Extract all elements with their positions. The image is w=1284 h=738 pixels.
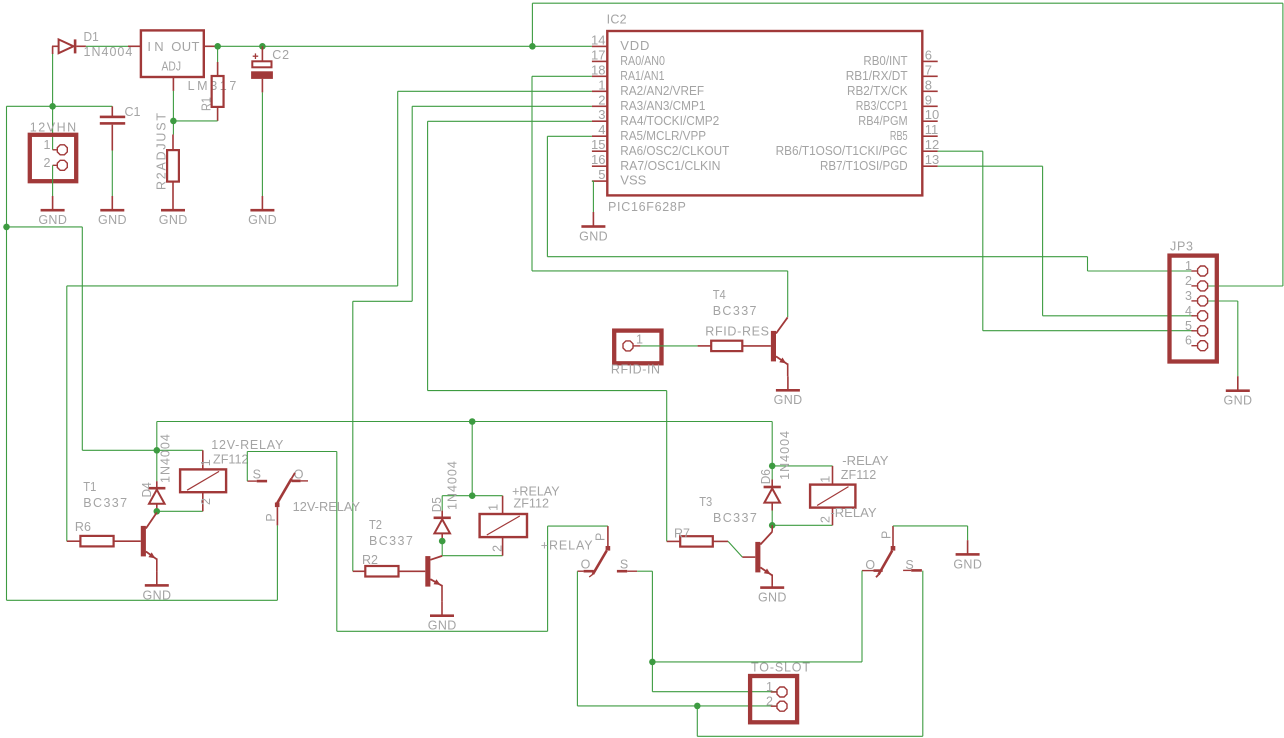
- svg-text:TO-SLOT: TO-SLOT: [751, 661, 810, 675]
- svg-text:JP3: JP3: [1170, 239, 1193, 253]
- svg-text:GND: GND: [428, 619, 457, 633]
- connector RFID-IN: [614, 331, 661, 364]
- wire segment B: [247, 451, 336, 453]
- svg-text:1N4004: 1N4004: [446, 461, 460, 510]
- wire: [6, 106, 8, 227]
- resistor R7: [667, 536, 728, 546]
- resistor R2: [353, 566, 426, 577]
- IC2 pin 6 RB0/INT: [863, 47, 937, 68]
- svg-text:11: 11: [925, 122, 939, 137]
- svg-text:RA0/AN0: RA0/AN0: [620, 53, 665, 68]
- svg-text:1N4004: 1N4004: [778, 431, 792, 480]
- wire 12VHN pin2 to ground: [52, 165, 54, 196]
- svg-text:RA5/MCLR/VPP: RA5/MCLR/VPP: [620, 128, 706, 143]
- junction: [694, 703, 701, 710]
- wire T3 emitter to ground: [771, 574, 773, 585]
- svg-text:RA7/OSC1/CLKIN: RA7/OSC1/CLKIN: [620, 158, 720, 173]
- svg-text:D6: D6: [759, 469, 773, 484]
- svg-text:1N4004: 1N4004: [158, 434, 172, 483]
- T2 emitter arrowhead: [434, 579, 441, 585]
- junction: [214, 43, 221, 50]
- wire C2 to ground: [261, 92, 263, 196]
- svg-text:R2: R2: [362, 553, 378, 567]
- wire to -RELAY coil pin 1: [772, 465, 832, 467]
- svg-text:RA1/AN1: RA1/AN1: [620, 68, 664, 83]
- svg-text:GND: GND: [143, 588, 172, 602]
- wire riser S down to TO-SLOT pin1: [651, 571, 653, 692]
- svg-text:BC337: BC337: [369, 534, 413, 548]
- wire 12V-RELAY S riser: [246, 452, 248, 482]
- wire VDD riser to top rail: [531, 3, 533, 46]
- wire TO-SLOT pin 2: [577, 705, 776, 707]
- svg-text:1: 1: [598, 77, 605, 92]
- wire 12V-RELAY P to bottom rail: [276, 525, 278, 600]
- svg-text:1: 1: [487, 504, 501, 511]
- junction: [529, 43, 536, 50]
- wire C1 to ground: [111, 151, 113, 197]
- wire T2 emitter to ground: [441, 585, 443, 602]
- net 12V raw: wire 12VHN pin1 to C1 top: [7, 105, 113, 107]
- junction: [3, 224, 10, 231]
- svg-text:12V-RELAY: 12V-RELAY: [293, 500, 361, 514]
- wire ADJ vertical: [172, 91, 174, 135]
- net ADJ: wire R1 to ADJ: [173, 120, 217, 122]
- wire D1 to LM317 IN: [86, 45, 128, 47]
- svg-text:P: P: [264, 513, 278, 521]
- IC2 pin 17 RA0/AN0: [591, 47, 665, 68]
- svg-text:2: 2: [1185, 274, 1192, 288]
- net RA4 to R7: [428, 121, 667, 541]
- ground for 12VHN: [38, 196, 67, 227]
- svg-text:5: 5: [598, 167, 605, 182]
- svg-text:12VHN: 12VHN: [30, 121, 76, 135]
- wire far-left vertical: [6, 227, 8, 600]
- svg-text:GND: GND: [758, 591, 787, 605]
- svg-text:7: 7: [925, 62, 932, 77]
- resistor R6: [67, 536, 141, 547]
- wire -RELAY P to ground: [893, 526, 968, 540]
- wire to +RELAY P pivot: [548, 525, 608, 527]
- svg-text:RB4/PGM: RB4/PGM: [858, 113, 907, 128]
- IC U1 PIC16F628P box: [607, 31, 922, 195]
- wire D6 to relay coil pin 2: [772, 524, 832, 526]
- relay coil +RELAY ZF112: [480, 496, 527, 556]
- wire -RELAY O drop: [861, 571, 863, 662]
- svg-text:PIC16F628P: PIC16F628P: [608, 200, 686, 214]
- wire +RELAY O drop: [576, 571, 578, 706]
- junction: [49, 103, 56, 110]
- svg-text:GND: GND: [248, 213, 277, 227]
- wire riser to +RELAY P: [547, 526, 549, 631]
- svg-text:GND: GND: [1224, 394, 1253, 408]
- ground for C1: [98, 196, 127, 227]
- svg-text:P: P: [593, 533, 607, 541]
- svg-text:3: 3: [1185, 289, 1192, 303]
- switch 12V-RELAY: arm and pivot P: [264, 473, 295, 526]
- wire drop from pin2 node: [696, 706, 698, 736]
- IC2 pin 15 RA6/OSC2/CLKOUT: [591, 137, 729, 158]
- svg-text:6: 6: [925, 47, 932, 62]
- svg-text:17: 17: [591, 47, 605, 62]
- connector TO-SLOT: [750, 676, 797, 722]
- svg-text:2: 2: [766, 694, 773, 708]
- ground for VSS: [579, 212, 608, 243]
- transistor T1 BC337: [141, 513, 157, 560]
- svg-text:4: 4: [1185, 304, 1192, 318]
- wire to JP3 pin 2: [1192, 285, 1283, 287]
- wire TO-SLOT pin 1: [652, 691, 776, 693]
- svg-text:IC2: IC2: [607, 13, 627, 27]
- wire rail drop to D5: [471, 422, 473, 496]
- svg-text:R1: R1: [199, 97, 213, 111]
- switch 12V-RELAY: S contact: [247, 467, 267, 482]
- junction: [259, 43, 266, 50]
- wire -RELAY S drop: [922, 571, 924, 737]
- svg-text:14: 14: [591, 32, 605, 47]
- junction: [649, 659, 656, 666]
- junction: [170, 118, 177, 125]
- ground for JP3 pin 3: [1224, 376, 1253, 407]
- svg-text:RB0/INT: RB0/INT: [863, 53, 907, 68]
- svg-text:RA2/AN2/VREF: RA2/AN2/VREF: [620, 83, 704, 98]
- IC2 pin 13 RB7/T1OSI/PGD: [820, 152, 939, 173]
- svg-text:+RELAY: +RELAY: [541, 539, 593, 553]
- wire T3 collector: [771, 525, 773, 532]
- svg-text:C2: C2: [272, 48, 289, 62]
- svg-text:ZF112: ZF112: [841, 468, 877, 482]
- svg-text:3: 3: [598, 107, 605, 122]
- svg-text:ADJ: ADJ: [162, 59, 182, 74]
- T3 emitter arrowhead: [764, 569, 771, 575]
- svg-text:2: 2: [44, 156, 51, 170]
- svg-text:8: 8: [925, 77, 932, 92]
- ground for T4: [774, 376, 803, 407]
- svg-text:RFID-IN: RFID-IN: [611, 363, 660, 377]
- svg-text:D4: D4: [140, 482, 154, 497]
- svg-text:GND: GND: [98, 213, 127, 227]
- svg-text:1N4004: 1N4004: [84, 45, 133, 59]
- junction: [469, 418, 476, 425]
- net RB7 to JP3 pin 4: [938, 166, 1193, 316]
- wire T2 collector to relay pin 2: [442, 555, 502, 557]
- svg-text:IN: IN: [147, 39, 163, 54]
- wire R7 to T3 base (diagonal): [728, 541, 742, 557]
- svg-text:R7: R7: [674, 527, 690, 541]
- svg-text:4: 4: [598, 122, 605, 137]
- svg-text:O: O: [581, 557, 591, 571]
- connector JP3: [1170, 256, 1217, 362]
- svg-text:RB6/T1OSO/T1CKI/PGC: RB6/T1OSO/T1CKI/PGC: [776, 143, 908, 158]
- resistor R1: [212, 46, 224, 121]
- svg-text:RB7/T1OSI/PGD: RB7/T1OSI/PGD: [820, 158, 908, 173]
- ground for -RELAY P: [953, 540, 982, 571]
- net VDD: LM317 OUT to IC2 VDD: [218, 45, 592, 47]
- IC2 pin 12 RB6/T1OSO/T1CKI/PGC: [776, 137, 940, 158]
- wire: [7, 226, 83, 228]
- wire D4 to relay coil pin 2: [157, 510, 203, 512]
- ground for C2: [248, 196, 277, 227]
- wire +RELAY S to riser: [637, 570, 652, 572]
- wire rail to segment A: [156, 422, 158, 451]
- wire 12VHN pin1 riser: [52, 53, 54, 150]
- switch -RELAY: O contact: [862, 558, 883, 572]
- wire T1 emitter to ground: [156, 558, 158, 571]
- svg-text:D5: D5: [430, 497, 444, 512]
- svg-text:12: 12: [925, 137, 939, 152]
- IC2 pin 2 RA3/AN3/CMP1: [592, 92, 705, 113]
- svg-text:10: 10: [925, 107, 939, 122]
- IC2 pin 7 RB1/RX/DT: [846, 62, 938, 83]
- svg-text:5: 5: [1185, 319, 1192, 333]
- connector 12VHN: [30, 135, 76, 181]
- wire D5 node: [442, 495, 502, 497]
- svg-text:RB2/TX/CK: RB2/TX/CK: [847, 83, 908, 98]
- IC2 pin 4 RA5/MCLR/VPP: [592, 122, 706, 143]
- wire D5 to T2 collector: [441, 541, 443, 556]
- svg-text:VSS: VSS: [620, 173, 646, 188]
- T3 base lead: [742, 556, 755, 558]
- svg-text:RB1/RX/DT: RB1/RX/DT: [846, 68, 908, 83]
- svg-text:T2: T2: [369, 518, 382, 532]
- transistor T2 BC337: [425, 556, 442, 587]
- svg-text:2: 2: [491, 545, 505, 552]
- switch +RELAY: S contact: [617, 557, 637, 572]
- junction: [439, 538, 446, 545]
- svg-text:ZF112: ZF112: [514, 497, 550, 511]
- svg-text:T4: T4: [713, 288, 726, 302]
- net RA5 to JP3 pin 1: [547, 136, 1193, 271]
- junction: [469, 492, 476, 499]
- diode D5 1N4004: [434, 496, 451, 541]
- T4 emitter arrowhead: [779, 358, 786, 364]
- svg-text:T1: T1: [83, 480, 96, 494]
- wire RFID-IN to RFID-RES: [640, 345, 697, 347]
- transistor T3 BC337: [755, 532, 772, 576]
- svg-text:ZF112: ZF112: [213, 452, 249, 466]
- svg-text:GND: GND: [159, 213, 188, 227]
- IC2 pin 8 RB2/TX/CK: [847, 77, 938, 98]
- net RA2 to R6: [67, 91, 592, 541]
- svg-text:1: 1: [1185, 259, 1192, 273]
- IC2 pin 1 RA2/AN2/VREF: [592, 77, 704, 98]
- svg-text:9: 9: [925, 92, 932, 107]
- svg-text:2: 2: [199, 498, 213, 505]
- capacitor C1: [100, 106, 125, 150]
- ground for R2ADJUST: [159, 196, 188, 227]
- svg-text:12V-RELAY: 12V-RELAY: [211, 438, 284, 452]
- svg-text:1: 1: [636, 333, 643, 347]
- wire segment B drop: [336, 452, 338, 632]
- svg-text:-RELAY: -RELAY: [830, 506, 877, 520]
- svg-text:-RELAY: -RELAY: [842, 454, 889, 468]
- svg-text:RFID-RES: RFID-RES: [705, 325, 769, 339]
- svg-text:6: 6: [1185, 334, 1192, 348]
- svg-text:GND: GND: [774, 393, 803, 407]
- net RB6 to JP3 pin 5: [938, 151, 1193, 331]
- svg-text:D1: D1: [84, 30, 99, 44]
- IC2 pin 10 RB4/PGM: [858, 107, 939, 128]
- svg-text:RA3/AN3/CMP1: RA3/AN3/CMP1: [620, 98, 705, 113]
- IC2 pin 18 RA1/AN1: [591, 62, 664, 83]
- svg-text:S: S: [905, 558, 913, 572]
- capacitor C2 (polarized): [251, 46, 273, 92]
- svg-text:T3: T3: [699, 495, 712, 509]
- svg-text:GND: GND: [953, 557, 982, 571]
- transistor T4 BC337: [771, 317, 788, 364]
- svg-text:1: 1: [766, 680, 773, 694]
- wire right edge drop: [1282, 3, 1284, 286]
- svg-text:GND: GND: [38, 213, 67, 227]
- wire VSS to ground: [592, 181, 594, 212]
- wire: [81, 227, 83, 450]
- wire T4 emitter to ground: [787, 363, 789, 376]
- svg-text:RB3/CCP1: RB3/CCP1: [856, 98, 908, 113]
- svg-text:13: 13: [925, 152, 939, 167]
- svg-text:BC337: BC337: [713, 304, 757, 318]
- resistor R2ADJUST: [167, 135, 179, 197]
- switch 12V-RELAY: O contact: [292, 467, 309, 482]
- relay coil 12V-RELAY ZF112: [180, 450, 226, 511]
- svg-text:S: S: [620, 557, 628, 571]
- svg-text:16: 16: [591, 152, 605, 167]
- svg-text:18: 18: [591, 62, 605, 77]
- diode D6 1N4004: [764, 466, 781, 525]
- svg-text:BC337: BC337: [83, 496, 127, 510]
- wire top rail: [532, 2, 1283, 4]
- junction: [769, 522, 776, 529]
- switch +RELAY: O contact: [577, 557, 593, 572]
- relay coil -RELAY ZF112: [810, 466, 855, 525]
- net RA1 to T4 collector: [532, 76, 788, 317]
- svg-text:GND: GND: [579, 229, 608, 243]
- wire bottom run to +RELAY switch: [337, 630, 548, 632]
- diode D4 1N4004: [148, 450, 165, 511]
- svg-text:O: O: [294, 467, 304, 481]
- junction: [154, 447, 161, 454]
- switch +RELAY: pivot P and arm: [589, 526, 610, 577]
- svg-text:O: O: [865, 558, 875, 572]
- wire bottom run to -RELAY S: [697, 735, 923, 737]
- ground for T3: [758, 586, 787, 605]
- svg-text:VDD: VDD: [620, 38, 649, 53]
- svg-text:C1: C1: [125, 105, 141, 119]
- voltage regulator U1 LM317: [128, 30, 218, 91]
- resistor RFID-RES: [698, 341, 771, 351]
- svg-text:1: 1: [199, 459, 213, 466]
- wire cross link to -RELAY O: [652, 661, 862, 663]
- switch -RELAY: S contact: [903, 558, 922, 572]
- svg-text:P: P: [879, 531, 893, 539]
- junction: [769, 463, 776, 470]
- svg-text:R6: R6: [75, 520, 91, 534]
- ground for T1: [143, 571, 172, 602]
- svg-text:1: 1: [818, 476, 832, 483]
- junction: [154, 508, 161, 515]
- net RA3 to R2: [353, 106, 592, 571]
- IC2 pin 16 RA7/OSC1/CLKIN: [591, 152, 720, 173]
- IC2 pin 3 RA4/TOCKI/CMP2: [592, 107, 719, 128]
- ground for T2: [428, 602, 457, 633]
- wire segment A: [82, 449, 203, 451]
- svg-text:15: 15: [591, 137, 605, 152]
- T1 emitter arrowhead: [148, 552, 155, 558]
- svg-text:S: S: [253, 467, 261, 481]
- svg-text:RB5: RB5: [890, 128, 908, 143]
- svg-text:RA4/TOCKI/CMP2: RA4/TOCKI/CMP2: [620, 113, 719, 128]
- wire relay supply rail: [157, 421, 772, 423]
- wire rail drop to D6: [771, 422, 773, 466]
- IC2 pin 9 RB3/CCP1: [856, 92, 938, 113]
- svg-text:OUT: OUT: [171, 39, 199, 54]
- svg-text:BC337: BC337: [713, 511, 757, 525]
- svg-text:2: 2: [598, 92, 605, 107]
- svg-text:RA6/OSC2/CLKOUT: RA6/OSC2/CLKOUT: [620, 143, 729, 158]
- IC2 pin 11 RB5: [890, 122, 938, 143]
- IC2 pin 14 VDD: [591, 32, 649, 53]
- wire JP3 pin 3 to ground: [1192, 301, 1238, 376]
- wire bottom-left horizontal: [7, 599, 278, 601]
- svg-text:1: 1: [44, 138, 51, 152]
- switch -RELAY: pivot P and arm: [876, 526, 895, 577]
- diode D1: [52, 39, 86, 54]
- IC2 pin 5 VSS: [592, 167, 647, 188]
